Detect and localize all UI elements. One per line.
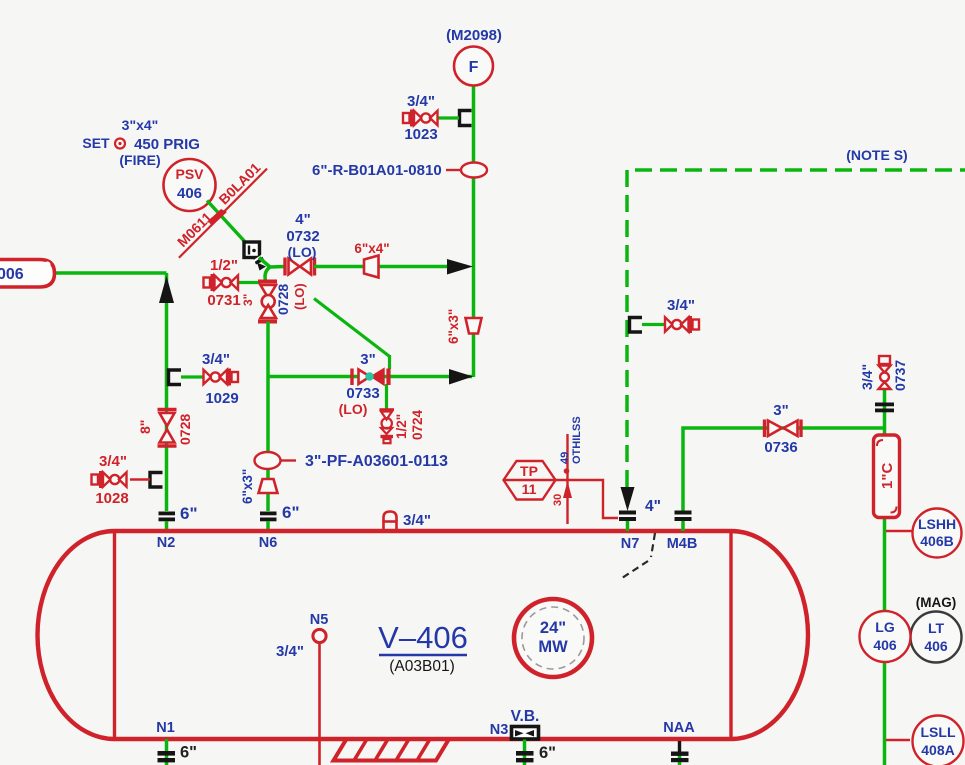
valve 0737 with top cap [859, 356, 908, 391]
wire: right standpipe [883, 364, 887, 765]
reducer 6x3 at N6 [240, 469, 278, 504]
PSV valve symbol (black square with nib) [244, 242, 266, 271]
svg-text:OTHILSS: OTHILSS [571, 416, 583, 464]
branch bracket 1029 [169, 370, 182, 385]
svg-text:6": 6" [180, 744, 197, 762]
svg-text:24": 24" [540, 619, 566, 637]
wire stub to 3/4 valve [642, 323, 665, 326]
svg-text:49: 49 [559, 452, 571, 464]
valve 1029 with end cap [202, 351, 239, 407]
svg-text:11: 11 [522, 481, 537, 497]
wire stub to valve 1028 (red) [130, 478, 150, 481]
class break arrow [208, 209, 227, 226]
svg-text:F: F [469, 59, 479, 76]
svg-text:0728: 0728 [275, 284, 291, 315]
svg-text:3/4": 3/4" [403, 512, 431, 529]
svg-text:3/4": 3/4" [407, 93, 435, 110]
svg-text:(NOTE S): (NOTE S) [846, 147, 907, 163]
svg-text:1"C: 1"C [879, 463, 896, 489]
instrument LT-406 (MAG) [911, 595, 962, 663]
flange on standpipe [875, 403, 894, 413]
wire: M4B riser [683, 428, 885, 511]
svg-text:N7: N7 [621, 536, 640, 552]
wire stub to valve 1023 [436, 116, 459, 119]
valve 0724 drain with cap [380, 409, 426, 443]
reducer 6x3 on header [446, 309, 482, 344]
svg-text:1023: 1023 [404, 126, 437, 143]
svg-text:0737: 0737 [892, 360, 908, 391]
svg-text:(LO): (LO) [292, 283, 307, 310]
vacuum breaker N3 [490, 708, 556, 765]
svg-text:6": 6" [282, 503, 300, 522]
gauge glass LG-406 [860, 611, 911, 662]
note: PSV set pressure [82, 117, 200, 168]
svg-text:1/2": 1/2" [394, 414, 409, 439]
valve 1028 with end cap [92, 453, 129, 507]
nozzle flange N7 [619, 498, 661, 552]
line class break annotation M40611 [167, 202, 223, 258]
svg-text:3": 3" [773, 402, 788, 419]
svg-text:(LO): (LO) [288, 244, 317, 260]
svg-text:450 PRIG: 450 PRIG [134, 136, 200, 153]
flow arrow up at corner [159, 276, 174, 303]
svg-text:406: 406 [177, 185, 202, 202]
nozzle flange N2 [157, 504, 198, 551]
capped 3/4 connection on vessel top [384, 512, 431, 531]
line class break annotation B01A01 [213, 157, 267, 211]
wire: main 6-inch relief header vertical [472, 86, 476, 377]
svg-text:006: 006 [0, 266, 24, 283]
svg-text:NAA: NAA [663, 720, 695, 736]
svg-text:0733: 0733 [346, 385, 379, 402]
svg-text:1028: 1028 [95, 490, 128, 507]
svg-text:6"-R-B01A01-0810: 6"-R-B01A01-0810 [312, 162, 442, 179]
svg-text:N3: N3 [490, 722, 509, 738]
flow arrow down into N7 [621, 487, 635, 511]
svg-text:(MAG): (MAG) [916, 595, 957, 610]
internal pipe dashed indicator [651, 533, 655, 557]
valve 0731 with end cap [204, 257, 241, 309]
wire: dashed future line (NOTE S) [627, 147, 965, 487]
valve 0733 gate (LO) [339, 351, 389, 417]
svg-text:LSHH: LSHH [918, 516, 956, 532]
valve 0732 gate [285, 211, 320, 276]
svg-text:406B: 406B [920, 533, 953, 549]
nozzle flange NAA [663, 720, 695, 765]
svg-text:N5: N5 [310, 612, 329, 628]
svg-text:0731: 0731 [207, 292, 240, 309]
wire: PSV outlet diagonal [207, 201, 247, 245]
svg-text:30: 30 [552, 494, 564, 506]
svg-text:6"x3": 6"x3" [240, 469, 255, 504]
instrument bubble F (M2098) [446, 27, 502, 86]
wire: green horizontal from connector 006 [55, 271, 167, 275]
valve 3/4 on dashed line with cap [665, 297, 699, 333]
svg-text:6": 6" [180, 504, 198, 523]
reducer 6x4 [354, 241, 389, 278]
svg-text:6": 6" [539, 744, 556, 762]
svg-text:MW: MW [538, 638, 568, 656]
valve 1023 with end cap [403, 93, 438, 143]
wire: 4-inch to header [314, 265, 448, 269]
svg-text:0736: 0736 [764, 439, 797, 456]
vessel tag V-406 [378, 620, 468, 675]
svg-text:1029: 1029 [205, 390, 238, 407]
svg-text:N2: N2 [157, 535, 176, 551]
valve 0728 gate 8-inch [137, 410, 193, 447]
svg-text:6"x4": 6"x4" [354, 241, 389, 256]
svg-text:406: 406 [924, 638, 948, 654]
svg-text:406: 406 [873, 637, 897, 653]
svg-text:(A03B01): (A03B01) [389, 658, 454, 675]
svg-text:3": 3" [241, 294, 255, 306]
svg-text:3/4": 3/4" [667, 297, 695, 314]
svg-text:3/4": 3/4" [859, 364, 875, 390]
svg-text:TP: TP [520, 463, 538, 479]
svg-text:3/4": 3/4" [202, 351, 230, 368]
svg-text:N6: N6 [259, 535, 278, 551]
svg-text:3"-PF-A03601-0113: 3"-PF-A03601-0113 [305, 453, 448, 470]
wire: green vertical 8-inch line to N2 [165, 273, 169, 511]
svg-text:PSV: PSV [175, 166, 204, 182]
svg-text:0724: 0724 [410, 409, 425, 440]
svg-text:3/4": 3/4" [276, 643, 304, 660]
svg-text:3"x4": 3"x4" [122, 117, 159, 133]
svg-text:M4B: M4B [667, 536, 698, 552]
connector 006 box [0, 260, 55, 288]
svg-text:4": 4" [295, 211, 310, 228]
wire: 3-inch line [268, 375, 472, 379]
wire stub to valve 1029 [181, 375, 204, 378]
flow arrow into header (3-inch) [449, 369, 473, 385]
svg-text:V.B.: V.B. [511, 708, 540, 725]
level chamber 1"C [874, 435, 900, 518]
flow element PF-0113 (in-line ellipse) [255, 452, 449, 470]
wire: PF vertical line to N6 [266, 322, 270, 512]
svg-text:V–406: V–406 [378, 620, 468, 655]
svg-text:8": 8" [137, 420, 153, 434]
svg-text:SET: SET [82, 135, 110, 151]
wire: junction at PSV outlet [238, 258, 285, 283]
support skirt hatch [334, 739, 450, 765]
svg-text:LT: LT [928, 620, 945, 636]
branch bracket on dashed line [630, 318, 643, 333]
svg-text:1/2": 1/2" [210, 257, 238, 274]
manway 24 MW [514, 599, 592, 677]
valve 0728 vertical globe at junction [241, 282, 307, 322]
nozzle N5 [276, 612, 328, 765]
nozzle flange N1 [156, 720, 197, 765]
red signal line TP to N7 [556, 480, 619, 518]
svg-text:408A: 408A [921, 742, 954, 758]
svg-text:0732: 0732 [286, 228, 319, 245]
svg-text:(M2098): (M2098) [446, 27, 502, 44]
svg-text:(LO): (LO) [339, 401, 368, 417]
svg-text:4": 4" [645, 498, 661, 515]
svg-text:3/4": 3/4" [99, 453, 127, 470]
vessel V-406 shell [38, 531, 809, 739]
svg-text:6"x3": 6"x3" [446, 309, 461, 344]
nozzle flange M4B [667, 511, 698, 553]
svg-text:LSLL: LSLL [921, 724, 956, 740]
instrument LSHH-406B [886, 509, 962, 558]
svg-text:LG: LG [875, 619, 895, 635]
valve 0736 gate [764, 402, 801, 456]
flow element 0810 (in-line ellipse) [312, 162, 487, 179]
svg-text:N1: N1 [156, 720, 175, 736]
svg-text:3": 3" [360, 351, 375, 368]
relief valve PSV-406 bubble [164, 159, 216, 211]
flow arrow into header (6-inch) [447, 259, 473, 275]
branch bracket for valve 1023 [460, 111, 472, 126]
test point TP-11 hexagon [504, 461, 556, 500]
svg-text:0728: 0728 [177, 414, 193, 445]
nozzle flange N6 [259, 503, 300, 551]
instrument LSLL-408A [886, 716, 964, 765]
wire: diagonal bypass to 0724 [314, 299, 390, 410]
svg-text:(FIRE): (FIRE) [119, 152, 160, 168]
branch bracket 1028 [150, 473, 163, 488]
level annotation line [552, 416, 583, 524]
